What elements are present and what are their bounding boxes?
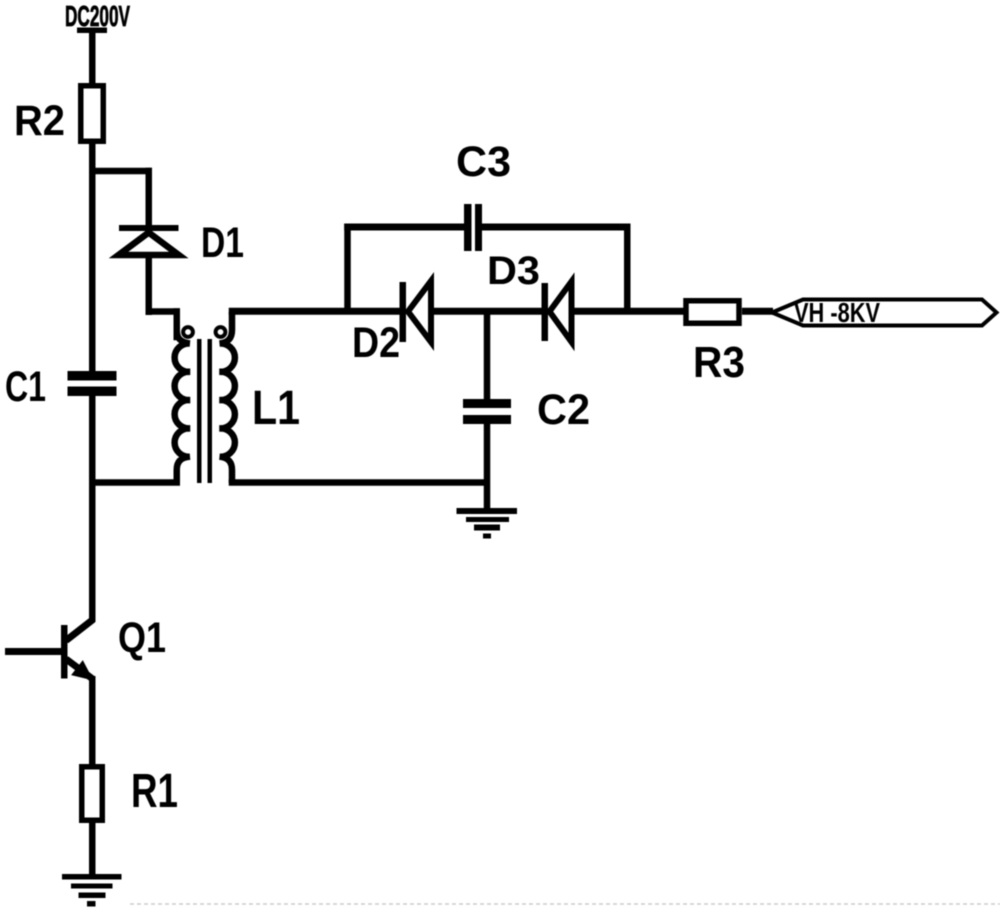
- dashed separator bottom: [130, 903, 1000, 905]
- svg-text:L1: L1: [252, 382, 300, 435]
- capacitor C2 plate 1: [463, 399, 511, 408]
- polarity dot primary: [183, 327, 193, 337]
- transistor Q1 emitter arrow: [71, 660, 93, 680]
- svg-text:R3: R3: [693, 338, 745, 387]
- ground below C2: [457, 508, 518, 514]
- diode D3 cathode bar: [542, 283, 549, 341]
- wire C3 loop top left: [344, 224, 464, 231]
- wire C3 loop top right: [482, 224, 631, 231]
- diode D2 cathode bar: [400, 282, 407, 342]
- wire branch to D1 vertical: [146, 168, 153, 228]
- transistor Q1 emitter lead: [66, 659, 92, 679]
- svg-text:R2: R2: [14, 97, 65, 145]
- transistor Q1 base wire: [5, 648, 61, 655]
- resistor R2: [81, 86, 104, 142]
- wire main horizontal segment b: [430, 308, 543, 315]
- capacitor C3 plate 1: [464, 204, 472, 251]
- svg-text:Q1: Q1: [118, 614, 166, 662]
- svg-text:C2: C2: [537, 386, 590, 434]
- power rail bar: [77, 28, 107, 34]
- capacitor C2 plate 2: [463, 415, 511, 424]
- wire bottom right: [229, 479, 490, 486]
- wire C2 top: [484, 311, 491, 399]
- resistor R1: [82, 767, 103, 821]
- wire C3 loop right vertical: [624, 224, 631, 315]
- diode D1 cathode bar: [119, 225, 179, 231]
- polarity dot secondary: [216, 327, 226, 337]
- wire main horizontal segment a: [229, 308, 402, 315]
- transistor Q1 collector lead: [66, 620, 93, 641]
- transformer core bar 2: [208, 339, 213, 483]
- wire R2 to C1: [89, 141, 96, 371]
- transformer L1 secondary winding: [220, 312, 235, 483]
- svg-text:R1: R1: [131, 765, 178, 818]
- wire C1 to Q1: [89, 396, 96, 622]
- diode D2 triangle: [408, 281, 431, 342]
- wire Q1 emitter to R1: [89, 676, 96, 767]
- wire C3 loop left vertical: [344, 224, 351, 315]
- capacitor C1 plate 2: [68, 387, 117, 397]
- wire bottom left: [89, 479, 180, 486]
- wire main horizontal segment c: [571, 308, 685, 315]
- transformer core bar 1: [197, 339, 202, 483]
- svg-text:D3: D3: [487, 249, 540, 293]
- svg-text:VH -8KV: VH -8KV: [794, 297, 880, 328]
- svg-text:C1: C1: [5, 363, 46, 411]
- transistor Q1 base bar: [61, 625, 68, 679]
- wire power bar to R2: [89, 31, 96, 85]
- diode D3 triangle: [550, 282, 572, 343]
- wire C2 bottom: [484, 423, 491, 508]
- wire R1 to ground: [89, 820, 96, 875]
- diode D1 triangle: [119, 233, 179, 256]
- svg-text:D1: D1: [201, 219, 244, 267]
- svg-text:C3: C3: [456, 138, 511, 186]
- resistor R3: [686, 301, 739, 324]
- capacitor C1 plate 1: [68, 371, 117, 381]
- svg-text:D2: D2: [352, 319, 400, 367]
- net flag VH -8KV outline: [772, 300, 997, 326]
- wire main horizontal segment d: [742, 308, 773, 315]
- capacitor C3 plate 2: [475, 204, 482, 251]
- wire branch to D1 horizontal: [89, 168, 152, 175]
- ground below R1: [62, 874, 122, 880]
- transformer L1 primary winding: [175, 312, 190, 483]
- wire D1 to transformer jog: [146, 255, 153, 315]
